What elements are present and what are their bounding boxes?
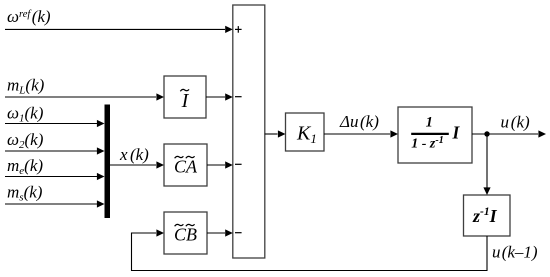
svg-text:1: 1 [426, 115, 433, 131]
svg-text:I: I [452, 123, 461, 143]
svg-text:Δu(k): Δu(k) [339, 112, 379, 131]
wire I-tilde to sum [206, 93, 233, 100]
svg-text:mL(k): mL(k) [7, 76, 45, 97]
block I-tilde [164, 76, 206, 118]
block 1/(1-z^-1) I (discrete integrator) [398, 107, 472, 163]
wire CA-tilde to sum [207, 161, 233, 168]
wire sum to K1 [265, 130, 286, 137]
wire m_e to bar [5, 173, 105, 180]
wire m_s to bar [5, 200, 105, 207]
wire integrator to output u(k) [472, 130, 546, 137]
svg-text:u(k): u(k) [501, 113, 531, 132]
svg-text:ω2(k): ω2(k) [7, 130, 44, 151]
wire x(k) bar to CA-tilde [110, 161, 164, 168]
mux bar (state vector collector) [105, 105, 111, 219]
wire omega_2 to bar [5, 147, 105, 154]
svg-text:me(k): me(k) [7, 156, 43, 177]
svg-text:x(k): x(k) [119, 145, 149, 164]
minus sign (sum input from I-tilde) [235, 96, 242, 98]
svg-text:ms(k): ms(k) [7, 183, 43, 204]
block CB-tilde [164, 212, 207, 254]
wire K1 to integrator, label Delta-u(k) [324, 130, 398, 137]
block CA-tilde [164, 144, 207, 186]
svg-text:CA: CA [174, 157, 198, 177]
junction node on output [484, 131, 489, 136]
minus sign (sum input from CA-tilde) [235, 163, 242, 165]
block z^-1 I (unit delay) [464, 195, 511, 236]
block K1 [286, 113, 325, 151]
minus sign (sum input from CB-tilde) [235, 232, 242, 234]
wire junction down to z^-1 I [483, 134, 490, 195]
wire omega_1 to bar [5, 120, 105, 127]
svg-text:CB: CB [174, 225, 197, 245]
summing block (tall comparator rectangle) [233, 5, 265, 258]
wire CB-tilde to sum [207, 229, 233, 236]
svg-text:ω1(k): ω1(k) [7, 104, 44, 125]
wire m_L to I-tilde [5, 93, 164, 100]
wire omega-ref to sum [5, 26, 233, 33]
svg-text:I: I [181, 90, 190, 112]
feedback wire z^-1 I to CB-tilde [132, 229, 488, 270]
plus sign (sum input from omega-ref) [235, 26, 242, 33]
svg-text:u(k–1): u(k–1) [492, 243, 538, 262]
